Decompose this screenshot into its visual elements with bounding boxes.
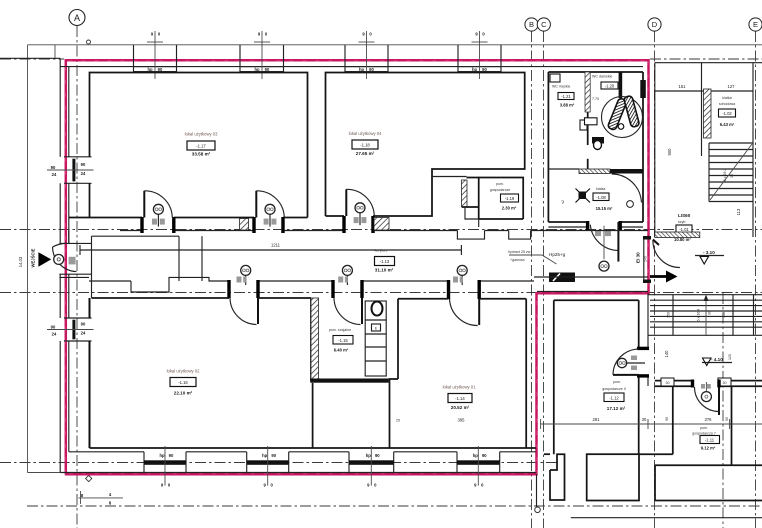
svg-text:90: 90 — [51, 325, 56, 330]
svg-text:33.58 m²: 33.58 m² — [192, 152, 211, 157]
svg-text:2.30 m²: 2.30 m² — [502, 206, 517, 211]
svg-text:klatka: klatka — [596, 187, 605, 191]
svg-text:B: B — [529, 20, 534, 29]
svg-text:WC damskie: WC damskie — [592, 75, 612, 79]
axis 4 horizontal bottom — [27, 505, 762, 507]
door leaf + arc down — [718, 387, 720, 415]
west wall outer face — [59, 58, 61, 157]
door symbol corridor-room01 — [457, 265, 467, 275]
svg-text:90: 90 — [169, 453, 174, 458]
door jamb blocks room03 door1 — [140, 217, 143, 233]
svg-text:-1.13: -1.13 — [380, 259, 390, 264]
svg-text:30: 30 — [723, 381, 727, 385]
south wall inner face segments — [69, 451, 144, 453]
svg-text:90: 90 — [81, 162, 86, 167]
hydrant symbol black — [549, 273, 575, 283]
svg-text:150: 150 — [667, 312, 671, 318]
pier 1 with notch — [550, 454, 565, 500]
entrance opening top jamb — [59, 242, 91, 244]
svg-text:hp: hp — [472, 67, 478, 72]
boundary left vertical — [27, 45, 29, 473]
svg-text:lokal użytkowy 03: lokal użytkowy 03 — [185, 132, 218, 137]
axis 2 horizontal — [0, 229, 762, 231]
svg-text:LIS60: LIS60 — [678, 213, 691, 218]
svg-text:hp: hp — [159, 453, 165, 458]
door jamb blocks room03 door2 — [252, 217, 255, 233]
door symbol room04 door — [355, 203, 365, 213]
svg-text:90: 90 — [271, 453, 276, 458]
svg-text:-1.01: -1.01 — [679, 227, 689, 232]
hatch band bottom of stair block — [655, 232, 700, 238]
hatch on partition top — [585, 72, 590, 112]
svg-text:C: C — [541, 20, 547, 29]
stair block top — [655, 62, 762, 64]
svg-text:90: 90 — [158, 67, 163, 72]
vertical walls — [672, 386, 674, 454]
lower stair flight — [648, 294, 762, 296]
window N4 center tick + labels — [479, 31, 481, 79]
svg-text:-1.17: -1.17 — [196, 144, 206, 149]
white sink box on partition — [585, 118, 598, 125]
wc partition vertical — [587, 72, 589, 145]
svg-text:7.70: 7.70 — [592, 97, 599, 101]
svg-text:90: 90 — [375, 453, 380, 458]
window S4 — [456, 452, 458, 473]
black duct stub — [619, 72, 623, 98]
room 03 outline — [90, 73, 308, 218]
svg-text:127: 127 — [728, 84, 736, 89]
svg-text:- 3.10: - 3.10 — [703, 250, 715, 255]
svg-text:-1.14: -1.14 — [455, 396, 465, 401]
top-left corner walls — [554, 299, 639, 301]
stair right vertical — [752, 63, 754, 237]
entrance door knob circle — [54, 254, 64, 264]
door leaf + arc — [613, 374, 639, 376]
svg-text:900: 900 — [667, 148, 672, 156]
corridor top face — [120, 230, 142, 232]
west corridor step — [92, 235, 180, 237]
svg-text:hp: hp — [262, 453, 268, 458]
top-left wall stub line — [0, 57, 60, 59]
svg-text:hp: hp — [473, 453, 479, 458]
svg-text:6.40 m²: 6.40 m² — [334, 348, 349, 353]
axis B vertical — [531, 31, 533, 528]
pom gospodarcze outline — [479, 178, 524, 220]
hatch wall piece — [704, 89, 712, 138]
hatched partition wall — [311, 298, 319, 381]
svg-text:hp: hp — [359, 67, 365, 72]
svg-text:+gaśnica: +gaśnica — [510, 258, 525, 262]
door jambs corridor-room01 — [447, 280, 450, 299]
grid bubble E — [749, 18, 762, 31]
window W1 black bar — [72, 159, 75, 182]
window W2 jambs — [64, 317, 92, 319]
magenta outline — [65, 60, 649, 474]
svg-text:22.10 m²: 22.10 m² — [174, 391, 193, 396]
door leaf + arc into room02 — [257, 298, 259, 324]
grid bubble D — [648, 18, 661, 31]
room 02 outline — [92, 297, 230, 299]
window S3 — [348, 452, 350, 473]
corridor dimension line 1211 — [80, 249, 461, 251]
door leaf + arc into socjalne — [361, 298, 363, 324]
toilet black — [592, 137, 604, 144]
svg-text:-1.02: -1.02 — [722, 111, 732, 116]
door leaf + arc room03 door2 — [255, 191, 257, 218]
svg-text:WEJŚCIE: WEJŚCIE — [31, 248, 36, 267]
right wall segments — [638, 300, 640, 348]
svg-text:A: A — [74, 13, 80, 23]
wall stubs beside magenta — [643, 236, 651, 240]
small center circle — [618, 124, 624, 130]
svg-text:9.12 m²: 9.12 m² — [701, 446, 716, 451]
svg-text:90: 90 — [482, 67, 487, 72]
room 03 bottom edge segments — [69, 217, 142, 219]
svg-text:s2: s2 — [561, 200, 565, 204]
west wall inner face — [68, 67, 70, 157]
svg-text:24: 24 — [52, 172, 57, 177]
entrance gray label block — [69, 257, 76, 265]
axis 1 horizontal left stub — [0, 58, 64, 60]
svg-text:6 x 16,4: 6 x 16,4 — [697, 309, 701, 322]
grid bubble C — [537, 18, 550, 31]
socjalne right wall — [397, 299, 399, 379]
svg-text:14.03: 14.03 — [18, 256, 23, 267]
top wall inner face — [60, 66, 643, 68]
pier 2 rect — [587, 454, 639, 500]
window N2 center tick + labels — [261, 31, 263, 79]
window N3 center tick + labels — [366, 31, 368, 79]
svg-text:145: 145 — [644, 256, 648, 262]
svg-text:pom.: pom. — [613, 380, 621, 384]
svg-text:klatka: klatka — [722, 96, 731, 100]
wc damskie turning circle — [602, 97, 643, 138]
svg-text:30: 30 — [708, 311, 712, 315]
svg-text:376: 376 — [705, 417, 713, 422]
top line segments — [544, 453, 550, 455]
svg-text:szyb: szyb — [678, 220, 685, 224]
stair treads upper — [709, 142, 753, 144]
boundary top horizontal — [28, 44, 762, 46]
door leaf + arc room04 door — [345, 189, 347, 216]
window S1 — [143, 452, 145, 473]
svg-text:25: 25 — [396, 419, 400, 423]
svg-text:WC męskie: WC męskie — [552, 85, 570, 89]
svg-text:gospodarcze: gospodarcze — [490, 188, 511, 192]
svg-text:schodowa: schodowa — [719, 102, 735, 106]
axis 1 horizontal right stub — [650, 58, 762, 60]
corridor feature verticals — [178, 236, 180, 281]
hatched wall piece — [462, 180, 468, 207]
door symbol corridor-room02 — [241, 265, 251, 275]
svg-text:30: 30 — [730, 174, 734, 178]
wc block bottom band — [548, 221, 587, 223]
svg-text:27.65 m²: 27.65 m² — [356, 151, 375, 156]
door symbol — [617, 358, 626, 367]
stair block left wall — [654, 63, 656, 237]
wc block right wall — [642, 72, 644, 222]
sink — [372, 302, 383, 316]
diamond marker bottom-left — [86, 475, 92, 481]
door jambs corridor-socjalne — [331, 280, 334, 298]
corridor top face at wc — [531, 230, 549, 232]
window N1 center tick + labels — [154, 31, 156, 79]
svg-text:1211: 1211 — [271, 243, 281, 248]
svg-text:31.10 m²: 31.10 m² — [375, 268, 394, 273]
svg-text:90: 90 — [265, 67, 270, 72]
svg-text:pom.: pom. — [496, 182, 504, 186]
svg-text:140: 140 — [664, 350, 669, 358]
svg-text:90: 90 — [51, 165, 56, 170]
svg-text:D: D — [652, 20, 658, 29]
room 01 left jog — [390, 379, 399, 448]
window N4 jambs — [457, 45, 459, 67]
svg-text:lokal użytkowy 02: lokal użytkowy 02 — [167, 369, 200, 374]
svg-text:- 4.10: - 4.10 — [711, 357, 723, 362]
south wall outer face — [60, 472, 536, 474]
door jambs — [637, 347, 649, 350]
svg-text:hp: hp — [254, 67, 260, 72]
svg-text:6.43 m²: 6.43 m² — [720, 122, 735, 127]
door leaf + arc room03 door1 — [143, 191, 145, 218]
door leaf + arc corridor-wc — [617, 222, 619, 262]
stair door arc — [653, 241, 680, 268]
svg-text:-1.15: -1.15 — [338, 338, 348, 343]
stair diagonal — [710, 144, 752, 200]
axis stub left lower — [0, 462, 560, 464]
window W2 tick — [47, 329, 94, 331]
window S2 — [246, 452, 248, 473]
svg-text:-1.21: -1.21 — [561, 94, 571, 99]
black radiator right — [640, 80, 646, 98]
wc mid horizontal wall — [548, 168, 579, 170]
svg-text:-1.11: -1.11 — [705, 438, 715, 443]
svg-text:-1.18: -1.18 — [360, 143, 370, 148]
svg-text:90: 90 — [725, 417, 729, 421]
door jambs corridor-room02 — [227, 280, 230, 298]
svg-text:15.15 m²: 15.15 m² — [596, 206, 613, 211]
svg-text:-1.16: -1.16 — [178, 380, 188, 385]
svg-text:-1.08: -1.08 — [596, 195, 606, 200]
room 01 outline — [398, 298, 449, 300]
door symbol room03 door1 — [153, 204, 163, 214]
svg-text:30: 30 — [666, 381, 670, 385]
wc block left wall — [547, 72, 549, 222]
svg-text:24: 24 — [81, 171, 86, 176]
lower wc room: fan symbol — [579, 192, 587, 200]
step wall below — [465, 207, 479, 227]
door jambs — [691, 380, 694, 388]
svg-text:-1.19: -1.19 — [505, 196, 515, 201]
door symbol corridor-socjalne — [342, 265, 352, 275]
wc block top edge — [548, 71, 643, 73]
fixtures rotated — [607, 98, 627, 131]
svg-text:lokal użytkowy 04: lokal użytkowy 04 — [349, 131, 382, 136]
svg-text:90: 90 — [665, 417, 669, 421]
svg-text:hydrant 25 zw: hydrant 25 zw — [508, 250, 531, 254]
extra axis vertical right — [722, 293, 724, 528]
right band — [655, 464, 762, 466]
window N3 jambs — [344, 45, 346, 67]
svg-text:hp: hp — [366, 453, 372, 458]
door leaf + arc into room01 — [478, 299, 480, 325]
svg-text:30: 30 — [642, 417, 647, 422]
svg-text:90: 90 — [369, 67, 374, 72]
black arrow right — [650, 275, 668, 278]
axis C vertical — [543, 31, 545, 528]
corridor west wall — [91, 236, 93, 277]
corridor east bottom wall — [534, 276, 648, 278]
hatch block between doors room03 — [240, 219, 249, 231]
wc meskie fixtures — [550, 74, 560, 82]
room 04 outline — [326, 73, 525, 217]
socjalne bottom wall band — [310, 379, 389, 383]
svg-text:151: 151 — [679, 84, 687, 89]
entrance door arc — [53, 247, 77, 272]
south wall room face (continuous) — [90, 447, 537, 449]
hatched band — [579, 169, 610, 174]
window N2 jambs — [239, 45, 241, 67]
bottom small dimension — [79, 497, 124, 499]
svg-text:113: 113 — [736, 208, 741, 215]
svg-text:korytarz: korytarz — [375, 249, 388, 253]
door corridor-wc jambs — [586, 221, 589, 231]
door symbol room03 door2 — [265, 204, 275, 214]
svg-text:3.88 m²: 3.88 m² — [560, 103, 575, 108]
wall band with 30 boxes — [655, 380, 693, 382]
svg-text:gospodarcza 7: gospodarcza 7 — [692, 432, 716, 436]
svg-text:24: 24 — [52, 332, 57, 337]
svg-text:pom. socjalne: pom. socjalne — [329, 328, 351, 332]
east-mid wall verticals — [536, 474, 538, 509]
entrance arrow triangle — [38, 252, 51, 267]
axis 3 horizontal — [0, 292, 762, 294]
svg-text:E: E — [753, 20, 758, 29]
window W1 tick — [47, 169, 94, 171]
svg-text:EI 30: EI 30 — [636, 252, 641, 263]
svg-text:20.52 m²: 20.52 m² — [451, 405, 470, 410]
window N1 jambs — [133, 45, 135, 67]
svg-text:90: 90 — [81, 322, 86, 327]
svg-text:90: 90 — [482, 453, 487, 458]
upper horizontal — [655, 90, 753, 92]
svg-text:gospodarcze II: gospodarcze II — [602, 387, 626, 391]
door damskie arc — [612, 174, 642, 203]
corridor bottom wall face segments — [59, 276, 89, 278]
door symbol — [701, 392, 711, 402]
axis D vertical — [654, 31, 656, 528]
small circle marker — [535, 507, 541, 513]
svg-text:281: 281 — [593, 417, 601, 422]
svg-text:Hp25+g: Hp25+g — [549, 252, 566, 257]
door jamb blocks room04 door — [342, 216, 345, 233]
svg-text:lokal użytkowy 01: lokal użytkowy 01 — [443, 385, 476, 390]
svg-text:hp: hp — [147, 67, 153, 72]
svg-text:24: 24 — [81, 331, 86, 336]
axis E vertical — [755, 31, 757, 528]
grid bubble A — [69, 10, 85, 26]
svg-text:120: 120 — [728, 354, 732, 360]
svg-text:150: 150 — [722, 312, 726, 318]
svg-text:395: 395 — [458, 418, 466, 423]
small circle marker top-left — [87, 40, 91, 44]
kitchen strip — [365, 301, 386, 376]
svg-text:-1.20: -1.20 — [605, 84, 615, 89]
grid bubble B — [525, 18, 538, 31]
entrance opening bottom jamb — [59, 273, 91, 275]
small box E — [372, 324, 381, 331]
svg-text:15 x 19.2: 15 x 19.2 — [723, 169, 727, 184]
svg-text:17.12 m²: 17.12 m² — [607, 406, 626, 411]
stair mid vertical — [701, 63, 703, 156]
svg-text:-1.12: -1.12 — [609, 396, 619, 401]
window W2 black bar — [72, 320, 75, 340]
hatch block right of room04 door — [374, 218, 389, 231]
axis A vertical — [76, 26, 78, 528]
window W1 jambs — [64, 156, 92, 158]
bottom solid line — [571, 517, 762, 519]
svg-text:pom.: pom. — [700, 426, 708, 430]
